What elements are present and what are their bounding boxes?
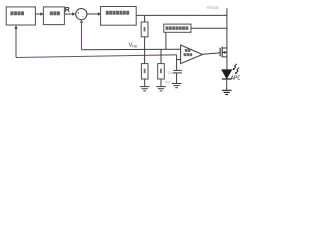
wire APD to ground	[226, 79, 228, 90]
op-amp U1 text label	[184, 49, 193, 56]
wire arrow circle to block C	[87, 12, 101, 15]
wire arrow A to B	[35, 12, 43, 15]
ground under APD	[222, 90, 232, 94]
resistor R3 value mark	[160, 69, 162, 74]
wire feedback arrow up into summing circle	[80, 19, 83, 49]
block B text label	[50, 11, 60, 15]
wire op-amp noninverting input	[177, 59, 181, 61]
block A text label	[10, 11, 24, 15]
ground under capacitor	[172, 84, 182, 88]
transistor Q1 drain arm	[222, 47, 227, 49]
transistor Q1 channel bar	[221, 47, 223, 58]
svg-text:R2: R2	[165, 81, 170, 85]
svg-text:HVout: HVout	[207, 5, 220, 10]
resistor R1 value mark	[144, 27, 146, 32]
svg-text:VFB: VFB	[129, 43, 138, 49]
wire down to resistor R3	[160, 50, 162, 64]
transistor Q1 gate bar	[219, 48, 221, 57]
wire rail junction down to resistor R1	[144, 15, 146, 22]
wire R3 to ground	[160, 79, 162, 86]
transistor Q1 source arm	[222, 56, 227, 58]
resistor R1 (top)	[141, 22, 148, 37]
transistor Q1 body arm with arrow	[222, 51, 227, 54]
wire block D down to VFB line	[165, 32, 167, 49]
right rail down to mosfet drain	[226, 15, 228, 48]
ground under R2	[140, 87, 150, 91]
wire arrow B to summing circle	[64, 12, 75, 15]
wire R2 to ground	[144, 79, 146, 86]
wire block C to right rail	[136, 14, 227, 16]
svg-text:R: R	[65, 7, 70, 14]
svg-text:APD: APD	[231, 75, 240, 81]
wire capacitor to ground	[176, 73, 178, 83]
resistor R2 value mark	[144, 69, 146, 74]
summing junction circle	[76, 9, 87, 20]
wire R1 to VFB line	[144, 37, 146, 50]
svg-text:−: −	[81, 14, 84, 19]
photodiode APD	[222, 70, 232, 79]
wire block D to right rail	[191, 27, 227, 29]
ground under R3	[156, 87, 166, 91]
wire mosfet source down to APD	[226, 48, 228, 70]
wire op-amp output to mosfet gate	[203, 53, 220, 54]
wire feedback node down to capacitor	[176, 55, 178, 70]
long feedback wire	[16, 55, 177, 58]
photon arrow 2	[235, 68, 239, 74]
wire VFB horizontal line to op-amp	[82, 48, 181, 51]
block A (reference source)	[6, 7, 35, 25]
block C	[101, 7, 137, 26]
block D text label	[166, 26, 189, 30]
svg-text:+: +	[77, 10, 80, 15]
op-amp U1	[181, 45, 203, 64]
block B	[43, 7, 64, 25]
capacitor C1	[173, 70, 182, 73]
resistor R2	[141, 64, 148, 79]
block C text label	[106, 11, 129, 15]
resistor R3	[158, 64, 165, 79]
block D (detector)	[164, 24, 191, 32]
wire feedback arrow up into block A	[14, 25, 17, 57]
right rail stub up	[226, 8, 228, 15]
wire down to resistor R2	[144, 50, 146, 64]
photon arrow 1	[233, 64, 237, 70]
